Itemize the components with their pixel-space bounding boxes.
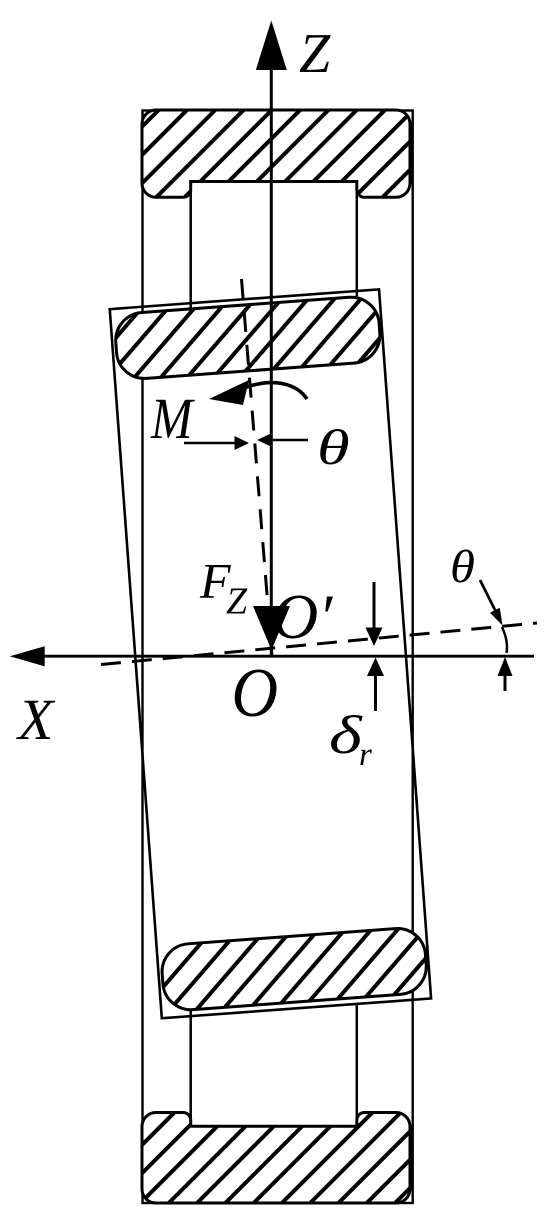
outer ring rectangle <box>143 111 413 1204</box>
upper roller <box>114 295 382 380</box>
bore line right top <box>356 182 359 308</box>
svg-text:O′: O′ <box>272 581 333 652</box>
svg-text:O: O <box>232 654 279 732</box>
delta_r dimension arrows <box>373 582 376 629</box>
inner ring rectangle <box>110 289 431 1018</box>
svg-text:r: r <box>359 737 372 773</box>
svg-text:Z: Z <box>226 581 248 623</box>
lower roller <box>160 927 428 1012</box>
svg-text:X: X <box>16 687 56 752</box>
svg-text:θ: θ <box>450 540 475 593</box>
svg-text:δ: δ <box>329 705 363 765</box>
moment M arc arrow <box>244 383 307 399</box>
angle arc (right) <box>502 627 507 653</box>
up arrow (right) <box>504 676 507 691</box>
X axis <box>42 655 534 658</box>
svg-text:θ: θ <box>317 420 350 475</box>
bore line left top <box>189 182 192 309</box>
tilted X' dashed line <box>101 623 537 665</box>
outer ring top cross-section (hatched block) <box>142 110 410 197</box>
outer ring bottom cross-section (hatched block) <box>142 1113 410 1204</box>
Z axis <box>270 66 273 655</box>
theta leader arrow (right) <box>480 580 496 612</box>
svg-text:Z: Z <box>299 23 331 85</box>
tilted inner ring assembly <box>110 289 431 1018</box>
bore line left bottom <box>189 1008 192 1126</box>
tilted Z' dashed line <box>242 279 272 655</box>
bore line right bottom <box>356 1004 359 1126</box>
svg-text:M: M <box>150 387 195 451</box>
F_Z force arrow <box>253 606 290 650</box>
theta angle arrows (middle) <box>184 442 235 445</box>
